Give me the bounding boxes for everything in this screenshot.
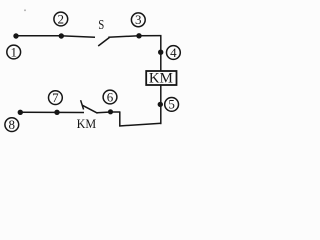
- wire: top horizontal left segment (node 1 to switch S): [16, 36, 95, 38]
- wire: top horizontal right segment (switch S to corner): [108, 36, 161, 38]
- scan speck: [24, 10, 26, 12]
- wire: KM contact right lead: [97, 111, 111, 114]
- node label circle 7: [49, 90, 63, 105]
- node label circle 3: [131, 12, 145, 27]
- KM contact tick: [81, 100, 84, 109]
- svg-text:5: 5: [168, 97, 175, 112]
- node dot terminal 8: [18, 110, 23, 115]
- node label circle 2: [54, 11, 68, 26]
- svg-text:S: S: [98, 18, 104, 33]
- node label circle 1: [7, 44, 21, 59]
- node dot under label 6: [108, 109, 113, 114]
- node dot under label 3: [136, 33, 141, 38]
- node label circle 6: [103, 89, 117, 104]
- wire: step vertical: [119, 112, 121, 127]
- svg-text:7: 7: [52, 90, 59, 105]
- switch S blade: [98, 37, 109, 46]
- svg-text:8: 8: [9, 117, 16, 132]
- node dot terminal 1: [13, 33, 18, 38]
- node dot under label 7: [54, 110, 59, 115]
- wire: right vertical upper (corner to KM coil box): [160, 35, 162, 71]
- wire: right vertical lower (KM coil box to bottom corner): [160, 85, 162, 124]
- node dot at label 4: [158, 50, 163, 55]
- wire: bottom step horizontal (to right vertical): [119, 123, 161, 126]
- node dot at label 5: [158, 102, 163, 107]
- node dot under label 2: [59, 33, 64, 38]
- svg-text:2: 2: [58, 11, 65, 26]
- svg-text:3: 3: [135, 12, 142, 27]
- node label circle 8: [5, 117, 19, 132]
- svg-text:KM: KM: [149, 71, 173, 87]
- wire: bottom horizontal left (node 8 to KM contact): [20, 111, 84, 113]
- KM contact blade: [82, 105, 97, 113]
- svg-text:4: 4: [170, 45, 177, 60]
- node label circle 5: [165, 97, 179, 112]
- wire: step horizontal at node 6: [110, 111, 120, 113]
- node label circle 4: [167, 45, 181, 60]
- svg-text:6: 6: [107, 89, 114, 104]
- KM coil box: [146, 71, 176, 85]
- svg-text:KM: KM: [77, 116, 97, 131]
- svg-text:1: 1: [10, 44, 17, 59]
